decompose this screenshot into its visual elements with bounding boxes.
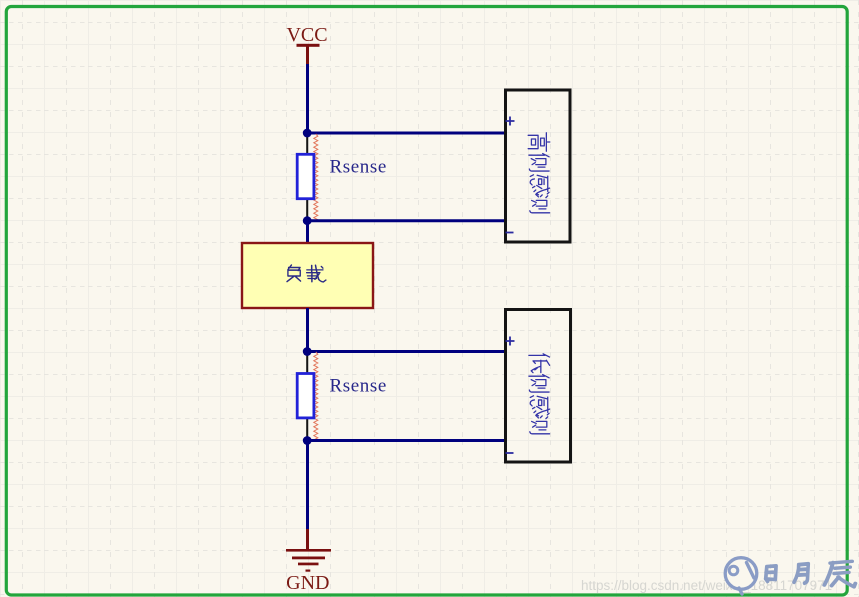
wire node A to high-side box +	[308, 132, 506, 135]
power port VCC bar symbol	[297, 44, 320, 47]
node D junction dot	[303, 436, 312, 445]
wire node B to load	[306, 221, 309, 243]
watermark logo circle	[725, 558, 757, 594]
low-side - pin label	[506, 452, 514, 454]
load text 负	[287, 265, 301, 282]
svg-text:Rsense: Rsense	[330, 156, 387, 177]
compile-error squiggle 1	[314, 134, 318, 221]
load block 负载	[242, 243, 373, 308]
svg-text:VCC: VCC	[286, 24, 327, 46]
watermark 辰	[824, 561, 855, 587]
wire node D to low-side box -	[308, 439, 506, 442]
power port VCC stem	[306, 46, 309, 65]
wire load to node C	[306, 308, 309, 352]
wire node D to ground	[306, 441, 309, 530]
low-side sense box	[506, 310, 571, 463]
low-side + pin label	[506, 337, 515, 346]
resistor R2 lead line	[306, 352, 308, 441]
ground stem	[306, 529, 309, 550]
node A junction dot	[303, 129, 312, 138]
watermark 月	[794, 564, 808, 583]
ground bar 4	[306, 570, 311, 572]
wire node B to high-side box -	[308, 219, 506, 222]
high-side sense box	[506, 90, 571, 242]
resistor R2 body	[297, 374, 314, 418]
ground bar 3	[298, 563, 319, 566]
low-side box text 低侧感测 (rotated)	[529, 354, 550, 434]
high-side - pin label	[506, 232, 514, 234]
ground bar 1	[286, 549, 331, 552]
high-side box text 高侧感测 (rotated)	[528, 133, 550, 213]
wire VCC to node A	[306, 64, 309, 133]
node B junction dot	[303, 216, 312, 225]
compile-error squiggle 2	[314, 352, 318, 440]
watermark 日	[766, 566, 776, 582]
svg-text:Rsense: Rsense	[330, 376, 387, 397]
node C junction dot	[303, 347, 312, 356]
high-side + pin label	[506, 117, 515, 126]
ground bar 2	[292, 557, 325, 560]
resistor R1 lead line	[306, 133, 308, 221]
resistor R1 body	[297, 154, 314, 198]
wire node C to low-side box +	[308, 350, 506, 353]
load text 载	[307, 265, 326, 282]
svg-text:GND: GND	[286, 572, 329, 594]
